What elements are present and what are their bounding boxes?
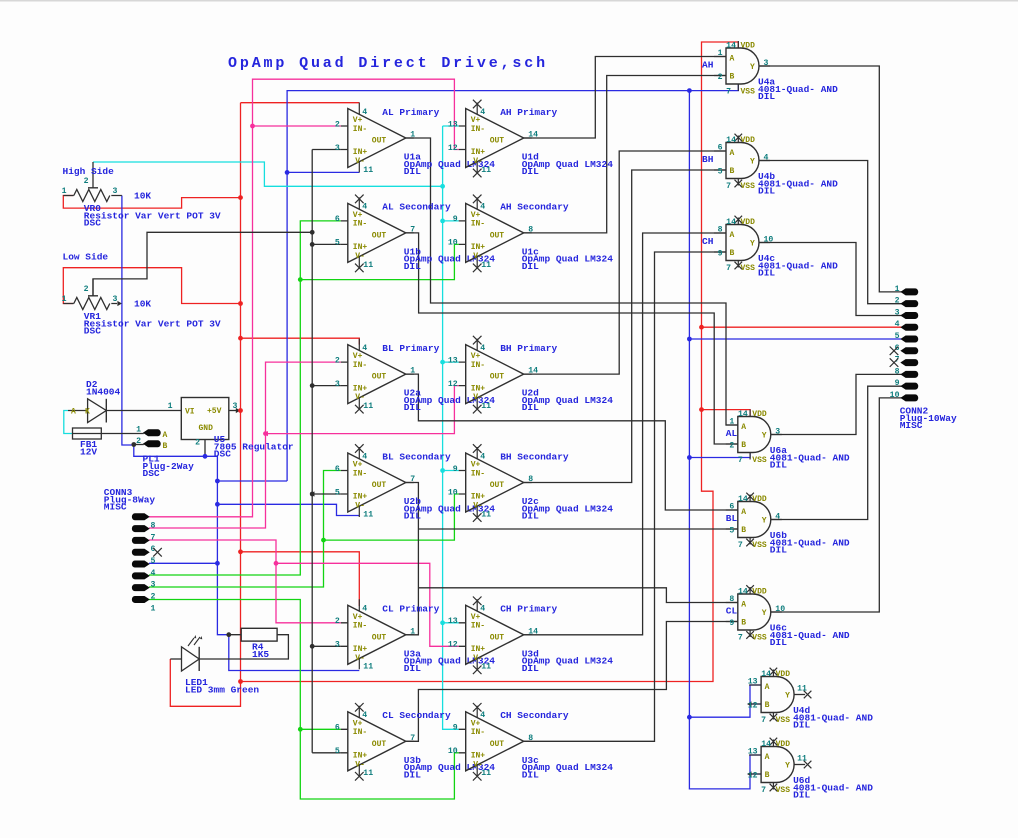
svg-text:11: 11 [363,166,373,175]
op-amp U2a [335,339,495,414]
svg-text:14: 14 [726,42,736,51]
junction GND net [285,170,290,175]
junction low-side net [131,442,136,447]
svg-text:OUT: OUT [372,481,387,490]
op-amp U1d [448,100,613,178]
svg-text:6: 6 [335,724,340,733]
wire: blue branch CONN2 pin 5 [689,338,901,340]
svg-text:1: 1 [410,627,415,636]
svg-text:2: 2 [84,177,89,186]
op-amp U1c [448,195,613,273]
svg-text:11: 11 [481,261,491,270]
svg-text:7: 7 [761,716,766,725]
svg-text:13: 13 [748,748,758,757]
wire: blue riser x287 and long VSS run to U4a [287,84,738,481]
svg-text:11: 11 [797,755,807,764]
svg-text:5: 5 [895,332,900,341]
svg-text:DIL: DIL [770,637,787,648]
svg-text:IN+: IN+ [353,243,368,252]
op-amp U3c [448,703,613,781]
svg-text:5: 5 [335,747,340,756]
svg-text:3: 3 [335,641,340,650]
svg-text:DSC: DSC [214,449,231,460]
svg-text:A: A [730,149,735,158]
wire: U1c out to U4a B [524,76,726,233]
wire: black IN+ branch [312,243,341,245]
svg-text:IN+: IN+ [353,148,368,157]
junction +5V net [699,325,704,330]
junction +5V net [238,195,243,200]
junction pink net C [274,561,279,566]
svg-text:14: 14 [761,670,771,679]
wire: blue branch to U1a pin 11 [287,171,359,173]
junction +5V net [238,336,243,341]
wire: green net AL: U1b IN- / CONN3 pin3 / U1c IN+ [149,221,341,575]
svg-text:AH: AH [702,60,714,71]
wire: U6a Y to CONN2 pin8 [771,374,902,434]
svg-text:8: 8 [528,475,533,484]
svg-text:DIL: DIL [404,166,421,177]
svg-text:IN+: IN+ [471,384,486,393]
op-amp U1b [335,195,495,273]
svg-text:2: 2 [895,297,900,306]
svg-text:BL: BL [726,513,738,524]
wire: green net CL: CONN3 pin1 / U3b IN- / U3c IN+ [149,600,459,800]
svg-text:A: A [741,508,746,517]
wire: U4b Y to CONN2 pin2 [759,161,902,304]
svg-text:4: 4 [362,711,367,720]
svg-text:5: 5 [729,527,734,536]
svg-text:+5V: +5V [207,407,222,416]
svg-text:6: 6 [729,503,734,512]
connection arrow U2b IN+ [310,491,315,496]
svg-text:DIL: DIL [404,769,421,780]
wire: U6b Y to CONN2 pin9 [771,386,902,519]
op-amp U3b [335,703,495,781]
svg-text:IN+: IN+ [471,243,486,252]
svg-text:V-: V- [473,157,483,166]
svg-text:OUT: OUT [372,740,387,749]
svg-text:AL Secondary: AL Secondary [382,202,451,213]
svg-text:DIL: DIL [522,663,539,674]
svg-text:A: A [765,683,770,692]
svg-text:B: B [741,441,746,450]
svg-text:7: 7 [761,786,766,795]
svg-text:B: B [741,619,746,628]
svg-text:VSS: VSS [741,264,756,273]
svg-text:VDD: VDD [741,218,756,227]
svg-text:IN-: IN- [471,622,485,631]
svg-text:4: 4 [362,605,367,614]
svg-text:IN-: IN- [471,361,485,370]
svg-text:2: 2 [151,592,156,601]
svg-text:9: 9 [453,724,458,733]
svg-text:8: 8 [528,225,533,234]
svg-text:V+: V+ [353,719,363,728]
wire: green net BL: U2b IN- / CONN3 pin2 / U2c IN+ [149,471,341,588]
svg-text:V+: V+ [353,116,363,125]
wire: black VR1 wiper to IN+ bus [93,232,312,295]
svg-text:Y: Y [785,692,790,701]
wire: U1d out to U4a A [524,57,726,139]
svg-text:OUT: OUT [490,373,505,382]
svg-text:V-: V- [355,252,365,261]
junction low-side net [310,242,315,247]
svg-text:Low Side: Low Side [63,252,109,263]
svg-text:3: 3 [335,144,340,153]
svg-text:6: 6 [335,465,340,474]
svg-text:A: A [765,753,770,762]
svg-text:8: 8 [718,226,723,235]
svg-text:11: 11 [481,769,491,778]
diode D2 1N4004 [68,379,173,423]
svg-text:DIL: DIL [404,663,421,674]
svg-text:1: 1 [718,49,723,58]
svg-text:10: 10 [448,747,458,756]
svg-text:12: 12 [448,641,458,650]
junction green net [298,727,303,732]
svg-text:13: 13 [448,356,458,365]
svg-text:IN-: IN- [353,361,367,370]
svg-text:K: K [85,408,90,417]
svg-text:DSC: DSC [143,468,160,479]
wire: blue branch to U2b pin 11 [217,504,359,515]
connector PL1 Plug-2Way [136,426,194,480]
regulator U5 7805 [181,398,294,460]
svg-text:B: B [730,249,735,258]
connection arrow VR1 pin3 [117,301,122,306]
svg-text:High Side: High Side [63,166,115,177]
svg-text:4: 4 [151,569,156,578]
junction low-side net [310,230,315,235]
svg-text:V-: V- [473,502,483,511]
wire: black D2 cathode to U5 VI [106,410,181,412]
svg-text:IN-: IN- [471,220,485,229]
junction high-side net [440,219,445,224]
svg-text:12: 12 [448,380,458,389]
svg-text:10K: 10K [134,191,151,202]
svg-text:AL: AL [726,428,738,439]
svg-text:DIL: DIL [522,402,539,413]
wire: blue V- trunk from pots to R4/LED node and U3a pin 11 [122,196,359,671]
svg-text:IN+: IN+ [353,493,368,502]
svg-text:2: 2 [729,442,734,451]
svg-text:2: 2 [84,285,89,294]
svg-text:V-: V- [355,502,365,511]
wire: black U5 GND stub [204,440,206,457]
svg-text:3: 3 [151,581,156,590]
junction low-side net [226,632,231,637]
svg-text:14: 14 [761,740,771,749]
svg-text:3: 3 [113,187,118,196]
junction green net [321,538,326,543]
svg-text:OUT: OUT [490,137,505,146]
svg-text:VSS: VSS [752,541,767,550]
wire: black IN+ bus feeding left-column IN+ pins [312,150,341,753]
svg-text:IN-: IN- [353,220,367,229]
wire: U1a out to U6a A [406,138,738,425]
svg-text:OUT: OUT [372,137,387,146]
svg-text:1: 1 [62,187,67,196]
svg-text:11: 11 [481,166,491,175]
svg-text:IN+: IN+ [471,148,486,157]
AND gate U6a [726,410,850,471]
connection arrow U5 output [236,408,241,413]
svg-text:4: 4 [775,512,780,521]
svg-text:11: 11 [363,769,373,778]
svg-text:CH: CH [702,236,714,247]
potentiometer VR0 [62,162,221,229]
wire: U2c out to U4b B [524,170,726,483]
svg-text:IN+: IN+ [353,645,368,654]
junction low-side net [310,383,315,388]
junction +5V net [238,549,243,554]
svg-text:3: 3 [775,427,780,436]
svg-text:3: 3 [233,402,238,411]
svg-text:DSC: DSC [84,218,101,229]
svg-text:14: 14 [726,218,736,227]
svg-text:BH Primary: BH Primary [500,343,557,354]
svg-text:3: 3 [764,59,769,68]
wire: black IN+ branch [312,385,341,387]
junction GND net [215,479,220,484]
svg-text:VDD: VDD [741,136,756,145]
svg-text:7: 7 [738,456,743,465]
wire: black PL1 pin2 stub [134,444,144,446]
svg-text:1: 1 [62,295,67,304]
svg-text:5: 5 [335,488,340,497]
svg-text:7: 7 [738,541,743,550]
svg-text:7: 7 [726,88,731,97]
svg-text:IN-: IN- [353,125,367,134]
svg-text:4: 4 [480,711,485,720]
svg-text:13: 13 [748,678,758,687]
svg-text:11: 11 [363,261,373,270]
svg-text:2: 2 [335,356,340,365]
op-amp U3d [448,597,613,675]
junction GND net [215,561,220,566]
connector CONN3 Plug-8Way [104,487,162,613]
svg-text:7: 7 [410,734,415,743]
svg-text:1: 1 [410,367,415,376]
svg-text:Resistor Var Vert POT 3V: Resistor Var Vert POT 3V [84,318,221,329]
connection arrow U4d pin12 [747,701,752,706]
wire: red branch to U3a pin 4 [241,552,360,606]
svg-text:14: 14 [726,136,736,145]
svg-text:A: A [741,601,746,610]
wire: red VR1 loop [63,268,240,304]
op-amp U2c [448,444,613,522]
svg-text:VDD: VDD [752,588,767,597]
svg-text:11: 11 [481,402,491,411]
svg-text:A: A [71,408,76,417]
svg-text:AH Secondary: AH Secondary [500,202,569,213]
svg-text:V-: V- [473,760,483,769]
svg-text:2: 2 [195,439,200,448]
svg-text:DIL: DIL [404,261,421,272]
svg-text:DIL: DIL [793,790,810,801]
svg-text:4: 4 [895,320,900,329]
svg-text:12V: 12V [80,446,97,457]
wire: pink net B: CONN3 pin7 / U2a IN- / U2d IN+ [149,362,341,528]
svg-text:14: 14 [738,410,748,419]
svg-text:IN-: IN- [353,469,367,478]
wire: black IN+ branch [312,645,341,647]
op-amp U2b [335,444,495,521]
svg-text:B: B [730,167,735,176]
svg-text:A: A [730,55,735,64]
svg-text:OUT: OUT [490,633,505,642]
wire: black U5 +5V out to red trunk [229,410,239,412]
svg-text:LED 3mm Green: LED 3mm Green [185,684,259,695]
svg-text:V-: V- [355,760,365,769]
svg-text:BH Secondary: BH Secondary [500,451,569,462]
svg-text:VDD: VDD [776,670,791,679]
wire: black LED cathode loop through R4 [199,635,288,659]
svg-text:1: 1 [168,402,173,411]
svg-text:MISC: MISC [104,502,127,513]
svg-text:4: 4 [764,153,769,162]
svg-text:Y: Y [750,63,755,72]
svg-text:7: 7 [726,264,731,273]
svg-text:14: 14 [738,588,748,597]
junction high-side net [440,360,445,365]
svg-text:4: 4 [480,108,485,117]
wire: blue branch to U4d A/B bracket [689,685,761,717]
wire: red branch to U6a VDD [702,410,751,417]
svg-text:3: 3 [335,380,340,389]
svg-text:V+: V+ [353,352,363,361]
svg-text:DIL: DIL [522,166,539,177]
svg-text:DIL: DIL [522,511,539,522]
wire: U6c Y to CONN2 pin10 [771,398,902,612]
svg-text:OpAmp Quad Direct Drive,sch: OpAmp Quad Direct Drive,sch [228,55,548,72]
svg-text:B: B [765,701,770,710]
connection arrow pink net B [264,431,269,436]
svg-text:OUT: OUT [490,481,505,490]
svg-text:9: 9 [453,465,458,474]
connection arrow U6d pin12 [747,771,752,776]
connector CONN2 Plug-10Way [890,285,957,431]
wire: U4a Y to CONN2 pin1 [759,66,902,292]
svg-text:4: 4 [480,605,485,614]
svg-text:DIL: DIL [770,460,787,471]
wire: blue VSS right trunk down to U6d [689,91,750,789]
svg-text:VDD: VDD [752,495,767,504]
svg-text:9: 9 [895,379,900,388]
svg-text:4: 4 [480,344,485,353]
junction +5V net [699,407,704,412]
AND gate U6d [748,738,873,801]
wire: blue branch U6a VSS [689,453,750,458]
wire: U1b out to U6a B [406,233,738,444]
wire: U3c out to U4c B [524,252,726,741]
svg-text:1: 1 [136,426,141,435]
svg-text:VI: VI [185,408,195,417]
svg-text:IN-: IN- [471,469,485,478]
svg-text:4: 4 [362,344,367,353]
junction GND net [687,455,692,460]
svg-text:VSS: VSS [741,182,756,191]
svg-text:OUT: OUT [372,231,387,240]
svg-text:DIL: DIL [404,511,421,522]
svg-text:DIL: DIL [522,261,539,272]
svg-text:V-: V- [355,654,365,663]
svg-text:12: 12 [748,772,758,781]
wire: blue branch CONN3 pin 4 [149,562,217,564]
svg-text:IN+: IN+ [353,752,368,761]
svg-text:3: 3 [895,308,900,317]
junction high-side net [440,184,445,189]
junction green net [298,277,303,282]
svg-text:VSS: VSS [741,88,756,97]
wire: black IN+ branch [312,493,341,495]
svg-text:VSS: VSS [752,456,767,465]
svg-text:11: 11 [481,510,491,519]
svg-text:DIL: DIL [758,91,775,102]
svg-text:V+: V+ [471,719,481,728]
svg-text:9: 9 [718,250,723,259]
svg-text:VSS: VSS [752,634,767,643]
svg-text:V+: V+ [353,461,363,470]
svg-text:V-: V- [473,654,483,663]
svg-text:V+: V+ [471,613,481,622]
wire: branch to U6b B [418,528,737,530]
wire: branch to U6c A [418,588,737,603]
svg-text:4: 4 [480,452,485,461]
svg-text:12: 12 [748,702,758,711]
svg-text:DIL: DIL [770,545,787,556]
junction +5V net [238,679,243,684]
svg-text:DIL: DIL [522,769,539,780]
wire: cyan from VR0 wiper across [93,162,443,186]
wire: U4c Y to CONN2 pin3 [759,243,902,316]
AND gate U4a [702,41,838,102]
svg-text:CL Secondary: CL Secondary [382,710,451,721]
svg-text:11: 11 [363,402,373,411]
svg-text:Y: Y [785,762,790,771]
svg-text:2: 2 [335,617,340,626]
wire: U3b out to U6c B [406,622,738,742]
svg-text:GND: GND [199,424,214,433]
wire: U2a out to U6b A [406,374,738,510]
svg-text:Y: Y [762,609,767,618]
svg-text:VDD: VDD [776,740,791,749]
svg-text:VDD: VDD [741,42,756,51]
svg-text:11: 11 [363,663,373,672]
svg-text:14: 14 [528,367,538,376]
svg-text:MISC: MISC [900,420,923,431]
svg-text:CH Secondary: CH Secondary [500,710,569,721]
wire: red branch to U2a pin 4 [241,338,360,344]
svg-text:9: 9 [729,619,734,628]
svg-text:V+: V+ [353,211,363,220]
junction +5V net [238,301,243,306]
svg-text:OUT: OUT [490,740,505,749]
svg-text:3: 3 [113,295,118,304]
svg-text:1: 1 [895,285,900,294]
svg-text:DSC: DSC [84,326,101,337]
svg-text:10: 10 [448,488,458,497]
wire: cyan branch [443,622,459,624]
svg-text:7: 7 [726,182,731,191]
svg-text:VDD: VDD [752,410,767,419]
wire: red branch to CONN2 pin 4 [702,326,902,328]
svg-text:8: 8 [528,734,533,743]
svg-text:IN+: IN+ [471,645,486,654]
svg-text:8: 8 [895,367,900,376]
junction high-side net [440,468,445,473]
